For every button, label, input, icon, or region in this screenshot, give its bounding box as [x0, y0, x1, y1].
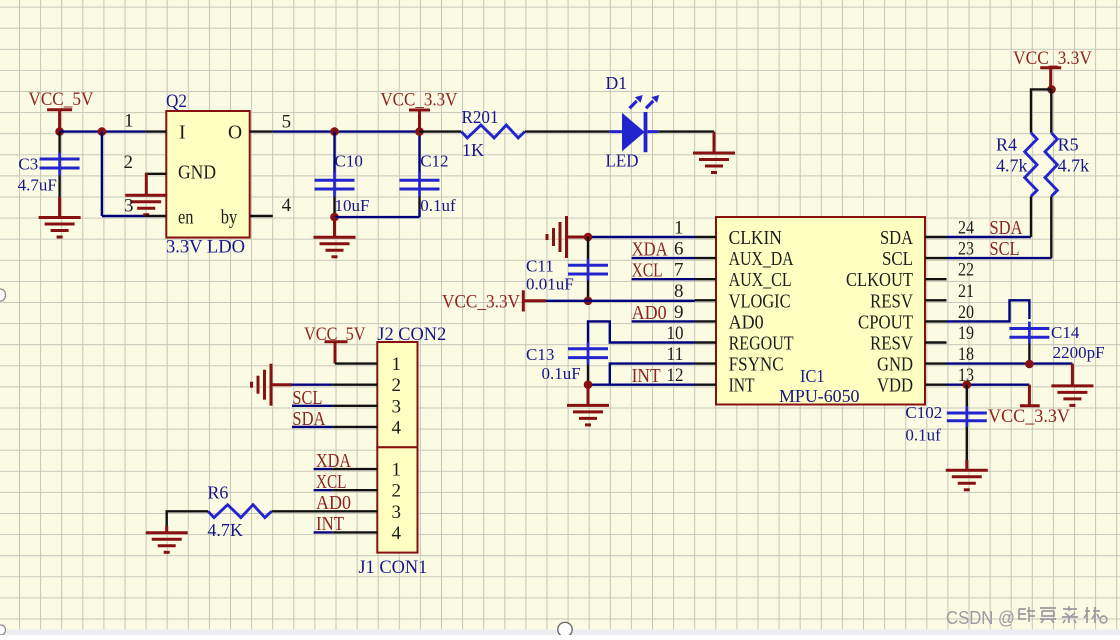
svg-text:2: 2 — [124, 152, 134, 173]
ground at Q2 pin 2 — [125, 173, 167, 215]
wire GND pin 18 — [947, 362, 1073, 364]
node C14 bottom junction — [1025, 360, 1034, 369]
capacitor C3 — [40, 132, 80, 197]
J2 pin 4 wire — [292, 426, 333, 428]
wire CPOUT to C14 — [947, 300, 1030, 321]
svg-text:4.7K: 4.7K — [207, 520, 243, 540]
svg-text:1K: 1K — [462, 140, 484, 160]
power flag VCC_3.3V top right — [1013, 48, 1092, 89]
svg-text:24: 24 — [958, 218, 974, 239]
Q2 pin 2 wire to ground — [146, 173, 166, 175]
IC1 left pin 9 stub — [695, 320, 716, 322]
svg-text:AUX_CL: AUX_CL — [729, 270, 792, 291]
IC1 left pin 12 stub — [695, 384, 716, 386]
J2 pin 2 wire — [292, 384, 333, 386]
svg-text:LED: LED — [606, 151, 639, 171]
svg-text:19: 19 — [958, 323, 974, 344]
svg-text:8: 8 — [674, 281, 684, 302]
svg-text:3: 3 — [124, 196, 134, 217]
svg-text:7: 7 — [674, 260, 684, 281]
J1 pin 1 wire — [314, 468, 333, 470]
capacitor C10 — [315, 132, 355, 218]
svg-text:SDA: SDA — [880, 228, 913, 249]
ground at R6 — [146, 526, 188, 552]
wire REGOUT to C13 — [588, 321, 695, 344]
svg-text:20: 20 — [958, 302, 974, 323]
wire VCC_5V rail to Q2 pin I — [60, 130, 146, 132]
svg-text:GND: GND — [178, 163, 216, 184]
svg-text:11: 11 — [667, 344, 684, 365]
IC1 right pin 19 stub — [925, 341, 947, 343]
IC1 right pin 22 stub — [925, 278, 947, 280]
resistor R201 — [461, 125, 525, 138]
node VCC_5V junction — [55, 127, 64, 136]
wire C10-C12 bottom rail — [335, 216, 420, 218]
J2 pin 3 wire — [292, 405, 333, 407]
svg-text:GND: GND — [877, 355, 913, 376]
wire INT net — [588, 384, 695, 386]
wire 3.3V rail — [273, 130, 420, 132]
svg-text:1: 1 — [674, 218, 684, 239]
wire AD0 net — [632, 320, 695, 322]
connector J1 CON1 box — [377, 447, 417, 552]
resize handle bottom left — [0, 625, 6, 635]
svg-text:0.1uf: 0.1uf — [905, 426, 941, 445]
svg-text:en: en — [178, 207, 194, 228]
regulator Q2 box — [166, 111, 249, 238]
svg-text:1: 1 — [392, 354, 402, 375]
wire R201 to LED — [525, 130, 610, 132]
svg-text:C12: C12 — [420, 152, 448, 171]
wire to R201 — [420, 130, 462, 132]
LED D1 — [609, 95, 659, 152]
svg-text:C14: C14 — [1051, 323, 1080, 342]
op-amp substitute: IC U1 MPU-6050 box — [716, 217, 925, 405]
svg-text:R6: R6 — [207, 482, 228, 502]
sideways ground at J2 pin 2 — [252, 364, 292, 406]
svg-text:RESV: RESV — [870, 334, 913, 355]
capacitor C102 — [947, 385, 987, 460]
svg-text:4: 4 — [282, 195, 292, 216]
svg-text:O: O — [228, 122, 242, 143]
wire SDA net — [947, 236, 1032, 238]
svg-text:R201: R201 — [462, 107, 499, 127]
svg-text:D1: D1 — [606, 73, 628, 93]
capacitor C14 — [1009, 322, 1049, 365]
J1 pin 3 wire from R6 — [272, 510, 378, 512]
svg-text:VCC_3.3V: VCC_3.3V — [442, 292, 520, 313]
power flag VCC_3.3V below (down) — [988, 385, 1070, 427]
svg-text:18: 18 — [958, 344, 974, 365]
svg-text:I: I — [179, 122, 186, 143]
J1 pin 2 wire — [314, 489, 333, 491]
svg-text:RESV: RESV — [870, 291, 913, 312]
svg-text:3: 3 — [392, 396, 402, 417]
node VDD junction — [963, 380, 972, 389]
watermark CSDN — [946, 606, 1107, 628]
svg-text:CLKOUT: CLKOUT — [846, 270, 913, 291]
power flag VCC_3.3V — [380, 90, 457, 132]
wire LED to ground — [658, 130, 714, 132]
svg-text:by: by — [221, 207, 238, 228]
sideways ground at CLKIN — [547, 216, 586, 258]
wire SCL net — [947, 257, 1052, 259]
J1 pin 4 wire — [314, 531, 333, 533]
resistor R5 — [1045, 133, 1057, 197]
svg-text:INT: INT — [632, 366, 661, 387]
IC1 right pin 23 stub — [925, 257, 947, 259]
resize handle bottom center — [558, 622, 572, 636]
svg-text:VCC_3.3V: VCC_3.3V — [988, 406, 1070, 427]
power flag VCC_5V — [28, 89, 93, 132]
svg-text:9: 9 — [674, 302, 684, 323]
Q2 pin 1 stub — [145, 130, 166, 132]
svg-text:10: 10 — [667, 323, 684, 344]
J2 pin 1 wire — [335, 362, 377, 364]
ground after LED — [693, 132, 735, 173]
ground below C102 — [946, 460, 988, 490]
svg-text:INT: INT — [729, 376, 755, 397]
svg-text:21: 21 — [958, 281, 974, 302]
svg-text:C13: C13 — [526, 345, 554, 364]
svg-text:3.3V LDO: 3.3V LDO — [166, 237, 245, 258]
svg-text:0.1uf: 0.1uf — [420, 196, 456, 215]
ground below C3 — [39, 197, 81, 237]
svg-text:0.01uF: 0.01uF — [526, 274, 574, 293]
svg-text:SCL: SCL — [990, 239, 1020, 260]
svg-text:12: 12 — [667, 365, 684, 386]
svg-text:VCC_5V: VCC_5V — [28, 89, 93, 110]
svg-text:XDA: XDA — [632, 240, 668, 261]
svg-text:VLOGIC: VLOGIC — [729, 291, 791, 312]
svg-text:2200pF: 2200pF — [1053, 343, 1105, 362]
svg-text:SDA: SDA — [990, 218, 1023, 239]
IC1 left pin 11 stub — [695, 362, 716, 364]
power flag VCC_3.3V at VLOGIC — [442, 290, 546, 312]
svg-text:AUX_DA: AUX_DA — [729, 249, 794, 270]
svg-text:VDD: VDD — [877, 376, 913, 397]
IC1 right pin 18 stub — [925, 362, 947, 364]
Q2 pin 3 stub — [145, 215, 166, 217]
svg-text:REGOUT: REGOUT — [729, 334, 794, 355]
svg-text:AD0: AD0 — [729, 312, 764, 333]
svg-text:10uF: 10uF — [335, 196, 370, 215]
node C10 bottom junction — [330, 213, 339, 222]
wire R6 left — [167, 511, 208, 526]
IC1 left pin 7 stub — [695, 278, 716, 280]
Q2 pin 4 stub — [250, 215, 273, 217]
svg-text:CLKIN: CLKIN — [729, 228, 782, 249]
node C13 bottom junction — [584, 380, 593, 389]
svg-text:22: 22 — [958, 260, 974, 281]
wire XCL net — [632, 278, 695, 280]
IC1 right pin 24 stub — [925, 236, 947, 238]
IC1 left pin 1 stub — [695, 236, 716, 238]
svg-text:3: 3 — [392, 502, 402, 523]
ground right of C14 — [1051, 364, 1093, 406]
resistor R4 — [1025, 133, 1037, 197]
svg-text:4.7k: 4.7k — [996, 156, 1028, 176]
node VCC_3.3V junction — [415, 127, 424, 136]
wire VDD pin 13 — [947, 384, 1030, 386]
svg-text:Q2: Q2 — [166, 91, 187, 112]
svg-text:R5: R5 — [1058, 135, 1079, 155]
capacitor C11 — [568, 237, 608, 301]
node R4/R5 junction — [1047, 85, 1056, 94]
node C10 junction — [330, 127, 339, 136]
resistor R6 — [208, 505, 272, 518]
IC1 right pin 20 stub — [925, 320, 947, 322]
svg-text:0.1uF: 0.1uF — [542, 364, 581, 383]
svg-text:R4: R4 — [996, 135, 1017, 155]
power flag VCC_5V at J2 — [304, 324, 366, 364]
IC1 left pin 10 stub — [695, 341, 716, 343]
node CLKIN junction — [584, 233, 593, 242]
wire FSYNC step — [610, 364, 695, 385]
capacitor C13 — [568, 343, 608, 385]
wire CLKIN net — [588, 236, 695, 238]
bottom gray strip — [0, 630, 1120, 636]
svg-text:AD0: AD0 — [632, 303, 667, 324]
svg-text:4.7uF: 4.7uF — [18, 176, 57, 195]
svg-text:2: 2 — [392, 375, 402, 396]
IC1 right pin 21 stub — [925, 299, 947, 301]
svg-text:2: 2 — [392, 481, 402, 502]
svg-text:VCC_3.3V: VCC_3.3V — [1013, 48, 1092, 69]
svg-text:XCL: XCL — [632, 261, 663, 282]
node VLOGIC junction — [584, 297, 593, 306]
svg-text:J1 CON1: J1 CON1 — [358, 557, 427, 578]
svg-text:1: 1 — [124, 111, 134, 132]
node junction at x102 — [98, 127, 107, 136]
wire R4 to SDA row — [1030, 196, 1032, 237]
svg-text:4: 4 — [392, 417, 402, 438]
IC1 right pin 13 stub — [925, 384, 947, 386]
resize handle left — [0, 289, 6, 301]
wire down to en row — [101, 132, 103, 216]
connector J2 CON2 box — [377, 342, 417, 447]
wire XDA net — [632, 257, 695, 259]
svg-text:CPOUT: CPOUT — [858, 312, 913, 333]
svg-text:VCC_3.3V: VCC_3.3V — [380, 90, 457, 111]
ground below C10 — [314, 217, 356, 257]
svg-text:6: 6 — [674, 239, 684, 260]
Q2 pin 5 stub — [250, 130, 273, 132]
svg-text:CSDN @: CSDN @ — [946, 607, 1015, 628]
svg-text:MPU-6050: MPU-6050 — [779, 386, 860, 406]
svg-text:SCL: SCL — [882, 249, 913, 270]
svg-text:C10: C10 — [335, 152, 363, 171]
wire R5 to SCL row — [1050, 196, 1052, 258]
svg-text:5: 5 — [282, 112, 292, 133]
ground below C13 — [567, 385, 609, 425]
IC1 left pin 6 stub — [695, 257, 716, 259]
IC1 left pin 8 stub — [695, 299, 716, 301]
svg-text:C11: C11 — [526, 257, 554, 276]
wire junction to R4 — [1031, 89, 1052, 132]
svg-text:IC1: IC1 — [800, 366, 825, 386]
wire VCC to VLOGIC — [546, 300, 696, 302]
svg-text:C3: C3 — [18, 154, 38, 173]
svg-text:FSYNC: FSYNC — [729, 355, 784, 376]
svg-text:4: 4 — [392, 523, 402, 544]
svg-text:4.7k: 4.7k — [1058, 156, 1090, 176]
svg-text:C102: C102 — [905, 403, 942, 422]
svg-text:J2 CON2: J2 CON2 — [377, 324, 446, 345]
wire R5 drop — [1050, 89, 1052, 132]
capacitor C12 — [400, 132, 440, 218]
svg-text:1: 1 — [392, 460, 402, 481]
svg-text:23: 23 — [958, 239, 974, 260]
